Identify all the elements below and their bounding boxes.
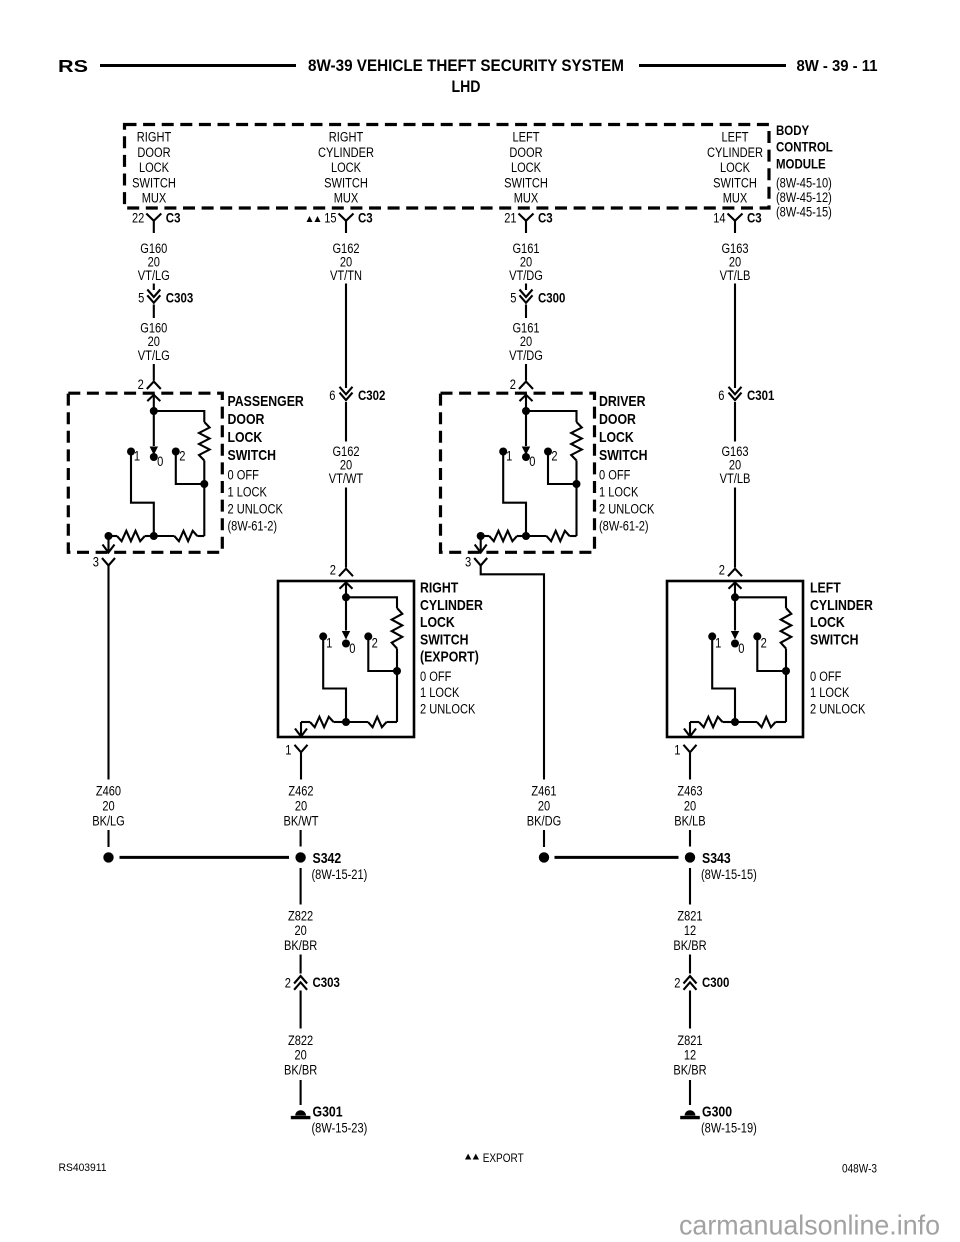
svg-text:Z461: Z461 <box>531 784 556 799</box>
left cylinder lock switch legend <box>810 669 865 717</box>
svg-text:2: 2 <box>179 448 185 463</box>
wire to corner (driver door lock switch) <box>570 535 577 537</box>
wire to corner (left cylinder lock switch) <box>776 721 787 723</box>
switch wiper arrow (right cylinder lock switch export) <box>345 597 347 630</box>
wire resistor node down (driver door lock switch) <box>575 484 577 536</box>
svg-text:1: 1 <box>134 448 140 463</box>
svg-text:1: 1 <box>715 635 721 650</box>
wire label G160 20 VT/LG (upper, col1) <box>138 241 170 283</box>
switch wiper arrow (driver door lock switch) <box>525 411 527 446</box>
contact 2 (passenger door lock switch) <box>172 448 180 456</box>
connector C3 pin 15 symbol <box>339 214 354 234</box>
svg-text:S343: S343 <box>702 850 731 867</box>
connector C303 pin 2 symbol (bottom) <box>294 976 307 984</box>
svg-text:MUX: MUX <box>514 191 539 206</box>
node: passenger door lock switch resistor junction <box>200 480 208 488</box>
node: splice dot left (to S343) <box>539 852 549 862</box>
svg-text:8W-39 VEHICLE THEFT SECURITY S: 8W-39 VEHICLE THEFT SECURITY SYSTEM <box>308 57 624 75</box>
left cylinder lock switch title <box>810 580 873 649</box>
connector C302 pin 6 symbol <box>340 387 353 395</box>
svg-text:C303: C303 <box>313 974 341 990</box>
left cylinder lock switch box <box>667 581 803 737</box>
svg-text:2: 2 <box>285 976 291 991</box>
svg-text:2 UNLOCK: 2 UNLOCK <box>810 701 865 716</box>
contact labels 1 0 2 (driver door lock switch) <box>506 448 558 469</box>
svg-text:LOCK: LOCK <box>228 429 263 446</box>
svg-text:LEFT: LEFT <box>810 580 841 597</box>
resistor (driver door lock switch position sense) <box>571 422 582 461</box>
driver door lock switch title <box>599 393 648 464</box>
svg-text:VT/DG: VT/DG <box>509 348 543 363</box>
node: driver door lock switch entry junction <box>522 407 530 415</box>
wire to corner (passenger door lock switch) <box>197 535 204 537</box>
wire G162 col2 seg2 <box>345 402 347 442</box>
svg-text:LOCK: LOCK <box>331 160 361 175</box>
svg-text:(8W-15-21): (8W-15-21) <box>312 867 368 882</box>
svg-text:(8W-15-19): (8W-15-19) <box>701 1121 757 1136</box>
svg-text:BK/BR: BK/BR <box>673 938 706 953</box>
wire branch to resistor (right cylinder lock switch export) <box>346 597 397 608</box>
wire Z463 col4 seg2 <box>689 830 691 847</box>
header rule right <box>639 64 786 67</box>
resistor (left cylinder lock switch position sense) <box>781 608 792 649</box>
svg-text:20: 20 <box>102 799 114 814</box>
svg-text:DOOR: DOOR <box>137 145 170 160</box>
wire Z463 col4 segment <box>689 753 691 780</box>
svg-text:VT/LB: VT/LB <box>720 471 751 486</box>
wire label G163 20 VT/LB (upper, col4) <box>720 241 751 283</box>
connector C3 pin 21 symbol <box>519 214 534 234</box>
node: right cylinder lock switch export output junction <box>342 718 350 726</box>
splice bus wire S343 <box>555 856 679 859</box>
resistor left (passenger door lock switch) <box>109 535 118 537</box>
contact 2 (right cylinder lock switch export) <box>364 632 372 640</box>
wire G160 col1 seg1 <box>153 284 155 291</box>
node: left cylinder lock switch entry junction <box>731 593 739 601</box>
svg-text:LOCK: LOCK <box>599 429 634 446</box>
wire label Z821 12 BK/BR (upper, col4) <box>673 909 706 954</box>
svg-text:SWITCH: SWITCH <box>228 447 277 464</box>
resistor left (driver door lock switch) <box>481 535 490 537</box>
resistor right (passenger door lock switch) <box>174 531 197 541</box>
resistor right (right cylinder lock switch export) <box>368 717 387 727</box>
svg-text:1: 1 <box>674 743 680 758</box>
svg-text:2 UNLOCK: 2 UNLOCK <box>420 701 475 716</box>
svg-text:12: 12 <box>684 1048 696 1063</box>
wire Z461 col3 seg2 <box>543 830 545 847</box>
svg-text:5: 5 <box>138 291 144 306</box>
wire from contact 2 (left cylinder lock switch) <box>757 636 786 671</box>
svg-text:Z822: Z822 <box>288 909 313 924</box>
wire G163 col4 long segment <box>734 284 736 389</box>
wire label G163 20 VT/LB (col4) <box>720 444 751 486</box>
svg-text:0 OFF: 0 OFF <box>599 468 630 483</box>
wire resistor to node (right cylinder lock switch export) <box>396 649 398 672</box>
svg-text:2: 2 <box>719 563 725 578</box>
pin 3 exit connector (passenger door lock switch) <box>107 536 109 553</box>
wire Z821 col4 seg3 <box>689 991 691 1029</box>
contact 1 (driver door lock switch) <box>499 448 507 456</box>
pin 2 entry connector to driver door lock switch <box>519 382 533 390</box>
wire G162 col2 seg3 <box>345 488 347 568</box>
svg-text:1: 1 <box>326 635 332 650</box>
node: driver door lock switch resistor junction <box>573 480 581 488</box>
svg-text:C301: C301 <box>747 387 775 403</box>
body control module name <box>776 122 833 172</box>
svg-text:C3: C3 <box>747 209 762 225</box>
resistor right (left cylinder lock switch) <box>757 717 776 727</box>
BCM pin function label: left cylinder lock switch mux <box>707 130 763 206</box>
contact labels 1 0 2 (left cylinder lock switch) <box>715 635 767 656</box>
svg-text:8W - 39 - 11: 8W - 39 - 11 <box>797 58 878 75</box>
svg-text:Z822: Z822 <box>288 1033 313 1048</box>
pin 2 entry connector to passenger door lock switch <box>147 382 161 390</box>
svg-text:CYLINDER: CYLINDER <box>420 597 483 614</box>
contact 1 (passenger door lock switch) <box>127 448 135 456</box>
wire resistor to node (passenger door lock switch) <box>203 461 205 485</box>
wire from contact 2 (passenger door lock switch) <box>176 452 205 485</box>
wire to corner (right cylinder lock switch export) <box>387 721 398 723</box>
wire from contact 2 (right cylinder lock switch export) <box>368 636 397 671</box>
wire center to resistor right (driver door lock switch) <box>526 535 547 537</box>
svg-text:RS: RS <box>58 56 88 76</box>
wire resistor node down (passenger door lock switch) <box>203 484 205 536</box>
svg-text:PASSENGER: PASSENGER <box>228 393 304 410</box>
svg-text:VT/DG: VT/DG <box>509 268 543 283</box>
resistor left (right cylinder lock switch export) <box>310 717 334 727</box>
wire from contact 1 (passenger door lock switch) <box>131 452 154 537</box>
ground G300 symbol <box>685 1110 696 1115</box>
svg-text:DOOR: DOOR <box>228 411 265 428</box>
wire G161 col3 seg1 <box>525 284 527 291</box>
svg-text:DRIVER: DRIVER <box>599 393 646 410</box>
contact 1 (right cylinder lock switch export) <box>319 632 327 640</box>
svg-text:CYLINDER: CYLINDER <box>318 145 374 160</box>
driver door lock switch entry arrow <box>520 395 533 401</box>
node: passenger door lock switch entry junction <box>150 407 158 415</box>
svg-text:1: 1 <box>285 743 291 758</box>
wire Z822 col2 seg2 <box>300 955 302 974</box>
svg-text:LOCK: LOCK <box>139 160 169 175</box>
svg-text:0: 0 <box>529 454 535 469</box>
wire label Z462 20 BK/WT (col2) <box>283 784 318 829</box>
wire from contact 1 (driver door lock switch) <box>503 452 526 537</box>
svg-text:6: 6 <box>329 388 335 403</box>
wire Z821 col4 seg2 <box>689 955 691 974</box>
svg-text:SWITCH: SWITCH <box>420 631 469 648</box>
svg-text:SWITCH: SWITCH <box>599 447 648 464</box>
contact 2 (left cylinder lock switch) <box>753 632 761 640</box>
svg-text:2: 2 <box>551 448 557 463</box>
passenger door lock switch entry arrow <box>147 395 160 401</box>
contact 0 (passenger door lock switch) <box>150 453 158 461</box>
svg-text:3: 3 <box>93 554 99 569</box>
resistor (right cylinder lock switch export position sense) <box>392 608 403 649</box>
right cylinder lock switch export box <box>278 581 414 737</box>
svg-text:Z821: Z821 <box>677 909 702 924</box>
svg-text:LOCK: LOCK <box>810 614 845 631</box>
svg-text:LOCK: LOCK <box>720 160 750 175</box>
passenger door lock switch title <box>228 393 304 464</box>
export marker triangles <box>307 216 313 222</box>
wire Z462 col2 seg2 <box>300 830 302 847</box>
svg-text:(8W-15-23): (8W-15-23) <box>312 1121 368 1136</box>
wire from contact 2 (driver door lock switch) <box>548 452 577 485</box>
right cylinder lock switch export legend <box>420 669 475 717</box>
wire G163 col4 seg3 <box>734 488 736 568</box>
wire branch to resistor (driver door lock switch) <box>526 411 577 422</box>
svg-text:C302: C302 <box>358 387 386 403</box>
header rule left <box>100 64 296 67</box>
wire Z460 col1 long segment <box>107 566 109 780</box>
svg-text:LOCK: LOCK <box>420 614 455 631</box>
connector C300 pin 5 symbol <box>520 290 533 298</box>
wire Z460 col1 seg2 <box>107 830 109 847</box>
wire resistor node down (left cylinder lock switch) <box>785 671 787 722</box>
right cylinder lock switch export title <box>420 580 483 666</box>
wire resistor node down (right cylinder lock switch export) <box>396 671 398 722</box>
pin 3 exit connector (driver door lock switch) <box>480 536 482 553</box>
BCM pin function label: right door lock switch mux <box>132 130 176 206</box>
wire label G162 20 VT/WT (col2) <box>329 444 363 486</box>
resistor right (driver door lock switch) <box>547 531 570 541</box>
passenger door lock switch legend <box>228 468 283 534</box>
svg-text:BK/BR: BK/BR <box>284 1063 317 1078</box>
svg-text:12: 12 <box>684 923 696 938</box>
right cylinder lock switch export entry arrow <box>340 583 353 589</box>
svg-text:MODULE: MODULE <box>776 155 826 171</box>
svg-text:0: 0 <box>738 641 744 656</box>
svg-text:(8W-45-15): (8W-45-15) <box>776 205 832 220</box>
BCM pin function label: right cylinder lock switch mux <box>318 130 374 206</box>
svg-text:LOCK: LOCK <box>511 160 541 175</box>
svg-text:RIGHT: RIGHT <box>420 580 458 597</box>
wire Z821 col4 seg1 <box>689 868 691 905</box>
svg-text:0 OFF: 0 OFF <box>420 669 451 684</box>
wire bottom left (left cylinder lock switch) <box>690 721 699 723</box>
svg-text:2: 2 <box>372 635 378 650</box>
contact 0 (left cylinder lock switch) <box>731 640 739 648</box>
node: splice dot left (to S342) <box>103 852 113 862</box>
svg-text:C300: C300 <box>538 290 566 306</box>
wire center to resistor right (passenger door lock switch) <box>154 535 175 537</box>
svg-text:DOOR: DOOR <box>509 145 542 160</box>
svg-text:C303: C303 <box>166 290 194 306</box>
svg-text:BK/LG: BK/LG <box>92 814 125 829</box>
resistor left (left cylinder lock switch) <box>699 717 723 727</box>
svg-text:C3: C3 <box>358 209 373 225</box>
pin 1 exit connector (left cylinder lock switch) <box>689 722 691 737</box>
svg-text:5: 5 <box>510 291 516 306</box>
svg-text:20: 20 <box>538 799 550 814</box>
svg-text:RIGHT: RIGHT <box>329 130 363 145</box>
svg-text:2: 2 <box>138 377 144 392</box>
svg-text:LEFT: LEFT <box>512 130 539 145</box>
contact 2 (driver door lock switch) <box>544 448 552 456</box>
connector C3 pin 22 symbol <box>146 214 161 234</box>
wire Z822 col2 seg4 <box>300 1080 302 1105</box>
node: passenger door lock switch output junction center <box>150 532 158 540</box>
svg-text:BK/BR: BK/BR <box>673 1063 706 1078</box>
splice bus wire S342 <box>120 856 290 859</box>
svg-text:BODY: BODY <box>776 122 810 138</box>
passenger door lock switch box (dashed) <box>68 393 222 552</box>
wire G162 col2 long segment <box>345 284 347 389</box>
wire G163 col4 seg2 <box>734 402 736 442</box>
svg-text:Z463: Z463 <box>677 784 702 799</box>
wire label G162 20 VT/TN (upper, col2) <box>330 241 362 283</box>
connector C300 pin 2 symbol (bottom) <box>684 976 697 984</box>
wire Z821 col4 seg4 <box>689 1080 691 1105</box>
svg-text:MUX: MUX <box>723 191 748 206</box>
wire G161 col3 seg2 <box>525 305 527 319</box>
svg-text:CONTROL: CONTROL <box>776 139 833 155</box>
svg-text:(8W-61-2): (8W-61-2) <box>599 519 649 534</box>
left cylinder lock switch entry arrow <box>729 583 742 589</box>
svg-text:20: 20 <box>295 799 307 814</box>
svg-text:1 LOCK: 1 LOCK <box>420 685 459 700</box>
wire branch to resistor (left cylinder lock switch) <box>735 597 786 608</box>
svg-text:14: 14 <box>713 210 726 225</box>
splice S342 dot <box>295 852 305 862</box>
svg-text:BK/LB: BK/LB <box>674 814 705 829</box>
svg-text:048W-3: 048W-3 <box>842 1164 877 1176</box>
ground G301 symbol <box>295 1110 306 1115</box>
svg-text:(EXPORT): (EXPORT) <box>420 649 479 666</box>
node: left cylinder lock switch output junction <box>731 718 739 726</box>
wire Z822 col2 seg3 <box>300 991 302 1029</box>
svg-text:2: 2 <box>510 377 516 392</box>
svg-text:CYLINDER: CYLINDER <box>810 597 873 614</box>
driver door lock switch box (dashed) <box>441 393 595 552</box>
body control module box (dashed) <box>125 125 770 209</box>
svg-text:C300: C300 <box>702 974 730 990</box>
svg-text:20: 20 <box>294 1048 306 1063</box>
node: right cylinder lock switch export entry junction <box>342 593 350 601</box>
svg-text:SWITCH: SWITCH <box>504 175 548 190</box>
svg-text:MUX: MUX <box>334 191 359 206</box>
pin 2 entry connector to right cylinder lock switch export <box>339 569 353 577</box>
wire G160 col1 seg3 <box>153 364 155 381</box>
wire label Z463 20 BK/LB (col4) <box>674 784 705 829</box>
svg-text:SWITCH: SWITCH <box>324 175 368 190</box>
svg-text:BK/WT: BK/WT <box>283 814 318 829</box>
svg-text:22: 22 <box>132 210 144 225</box>
svg-text:2: 2 <box>330 563 336 578</box>
svg-text:0 OFF: 0 OFF <box>228 468 259 483</box>
svg-text:(8W-15-15): (8W-15-15) <box>701 867 757 882</box>
svg-text:0 OFF: 0 OFF <box>810 669 841 684</box>
wire label Z822 20 BK/BR (upper, col2) <box>284 909 317 954</box>
BCM pin function label: left door lock switch mux <box>504 130 548 206</box>
node: left cylinder lock switch resistor junction <box>782 667 790 675</box>
svg-text:6: 6 <box>718 388 724 403</box>
svg-text:2 UNLOCK: 2 UNLOCK <box>599 502 654 517</box>
svg-text:1 LOCK: 1 LOCK <box>599 485 638 500</box>
svg-text:VT/LG: VT/LG <box>138 268 170 283</box>
resistor (passenger door lock switch position sense) <box>199 422 210 461</box>
svg-text:SWITCH: SWITCH <box>713 175 757 190</box>
connector C301 pin 6 symbol <box>729 387 742 395</box>
svg-text:20: 20 <box>684 799 696 814</box>
wire G160 col1 seg2 <box>153 305 155 319</box>
wire branch to resistor (passenger door lock switch) <box>154 411 205 422</box>
svg-text:carmanualsonline.info: carmanualsonline.info <box>679 1210 940 1241</box>
wire from contact 1 (right cylinder lock switch export) <box>323 636 346 722</box>
wire from contact 1 (left cylinder lock switch) <box>712 636 735 722</box>
pin 2 entry connector to left cylinder lock switch <box>728 569 742 577</box>
wire Z822 col2 seg1 <box>300 868 302 905</box>
svg-text:SWITCH: SWITCH <box>810 631 859 648</box>
wire bottom left (right cylinder lock switch export) <box>301 721 310 723</box>
node: passenger door lock switch output junction left <box>105 532 113 540</box>
svg-text:VT/WT: VT/WT <box>329 471 363 486</box>
svg-text:VT/LG: VT/LG <box>138 348 170 363</box>
svg-text:15: 15 <box>324 210 336 225</box>
svg-text:2 UNLOCK: 2 UNLOCK <box>228 502 283 517</box>
svg-text:BK/DG: BK/DG <box>527 814 561 829</box>
body control module references <box>776 175 832 219</box>
wire label Z821 12 BK/BR (lower, col4) <box>673 1033 706 1078</box>
connector C3 pin 14 symbol <box>728 214 743 234</box>
switch wiper arrow (passenger door lock switch) <box>153 411 155 446</box>
svg-text:20: 20 <box>294 923 306 938</box>
svg-text:C3: C3 <box>166 209 181 225</box>
svg-text:0: 0 <box>157 454 163 469</box>
svg-text:(8W-45-10): (8W-45-10) <box>776 175 832 190</box>
svg-text:MUX: MUX <box>142 191 167 206</box>
splice S343 dot <box>685 852 695 862</box>
svg-text:2: 2 <box>761 635 767 650</box>
svg-text:C3: C3 <box>538 209 553 225</box>
wire resistor to node (left cylinder lock switch) <box>785 649 787 672</box>
svg-text:(8W-61-2): (8W-61-2) <box>228 519 278 534</box>
svg-text:1 LOCK: 1 LOCK <box>810 685 849 700</box>
export note triangles <box>465 1154 471 1160</box>
wire label Z460 20 BK/LG (col1) <box>92 784 125 829</box>
wire label G161 20 VT/DG (lower, col3) <box>509 321 543 363</box>
svg-text:1: 1 <box>506 448 512 463</box>
node: driver door lock switch output junction center <box>522 532 530 540</box>
node: driver door lock switch output junction left <box>477 532 485 540</box>
svg-text:EXPORT: EXPORT <box>483 1151 525 1165</box>
wire label Z822 20 BK/BR (lower, col2) <box>284 1033 317 1078</box>
contact labels 1 0 2 (passenger door lock switch) <box>134 448 186 469</box>
contact 1 (left cylinder lock switch) <box>708 632 716 640</box>
svg-text:LEFT: LEFT <box>721 130 748 145</box>
svg-text:(8W-45-12): (8W-45-12) <box>776 190 832 205</box>
wire label G160 20 VT/LG (lower, col1) <box>138 321 170 363</box>
svg-text:BK/BR: BK/BR <box>284 938 317 953</box>
pin 1 exit connector (right cylinder lock switch export) <box>300 722 302 737</box>
svg-text:RS403911: RS403911 <box>59 1162 107 1174</box>
wire G161 col3 seg3 <box>525 364 527 381</box>
connector C303 pin 5 symbol <box>147 290 160 298</box>
contact 0 (right cylinder lock switch export) <box>342 640 350 648</box>
svg-text:21: 21 <box>504 210 516 225</box>
wire label G161 20 VT/DG (upper, col3) <box>509 241 543 283</box>
svg-text:G301: G301 <box>313 1104 343 1121</box>
svg-text:VT/TN: VT/TN <box>330 268 362 283</box>
svg-text:S342: S342 <box>313 850 342 867</box>
svg-text:SWITCH: SWITCH <box>132 175 176 190</box>
svg-text:Z821: Z821 <box>677 1033 702 1048</box>
svg-text:3: 3 <box>465 554 471 569</box>
contact 0 (driver door lock switch) <box>522 453 530 461</box>
contact labels 1 0 2 (right cylinder lock switch export) <box>326 635 378 656</box>
driver door lock switch legend <box>599 468 654 534</box>
svg-text:LHD: LHD <box>452 78 481 96</box>
